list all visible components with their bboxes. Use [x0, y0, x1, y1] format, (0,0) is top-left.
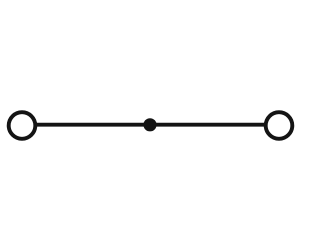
wire: [35, 123, 266, 127]
junction node: [143, 118, 156, 131]
terminal 2 (right connection point): [266, 112, 293, 139]
terminal 1 (left connection point): [9, 112, 36, 139]
